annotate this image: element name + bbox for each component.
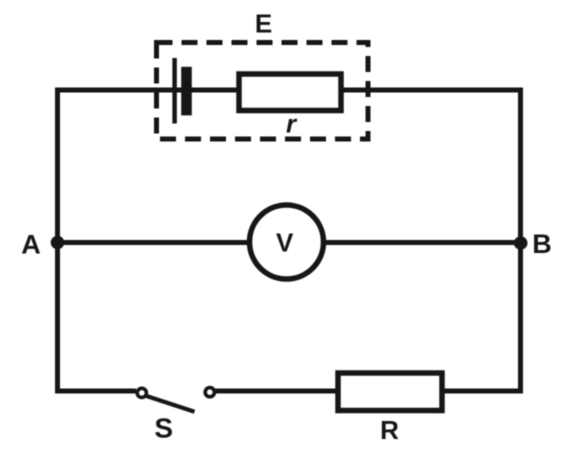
battery cell long plate <box>172 58 177 124</box>
wire bottom left segment <box>55 389 136 394</box>
wire top branch <box>55 88 523 93</box>
node B junction dot <box>514 236 528 250</box>
svg-text:B: B <box>532 229 552 259</box>
svg-text:A: A <box>21 230 41 260</box>
switch S lever arm <box>147 396 195 412</box>
wire right rail (B branch) <box>518 88 523 391</box>
svg-text:E: E <box>255 9 272 39</box>
resistor R body <box>338 373 442 411</box>
svg-text:S: S <box>154 413 173 444</box>
dashed enclosure box E <box>157 43 369 140</box>
wire middle branch <box>55 240 523 245</box>
switch S left contact circle <box>137 388 146 397</box>
battery cell short thick plate <box>181 67 192 116</box>
node A junction dot <box>51 236 65 250</box>
wire left rail (A branch) <box>55 88 60 391</box>
voltmeter U1 circle <box>250 205 324 279</box>
svg-text:R: R <box>380 415 399 445</box>
switch S right contact circle <box>205 388 214 397</box>
svg-text:V: V <box>276 227 294 257</box>
wire bottom right segment <box>215 389 523 394</box>
resistor r body <box>239 74 341 111</box>
